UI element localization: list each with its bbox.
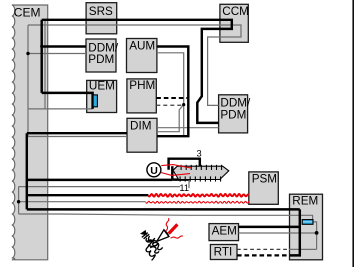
svg-text:DIM: DIM (130, 120, 151, 133)
svg-text:CCM: CCM (222, 5, 249, 18)
svg-text:PHM: PHM (129, 79, 155, 92)
svg-text:PSM: PSM (252, 172, 277, 185)
svg-text:U: U (150, 165, 158, 177)
svg-text:AUM: AUM (129, 40, 155, 53)
svg-text:UEM: UEM (89, 80, 115, 93)
svg-text:PDM: PDM (88, 53, 114, 66)
svg-text:11: 11 (179, 183, 189, 193)
svg-text:PDM: PDM (220, 108, 246, 121)
svg-text:REM: REM (292, 194, 318, 207)
svg-text:AEM: AEM (212, 225, 237, 238)
svg-text:RTI: RTI (214, 245, 233, 258)
svg-text:3: 3 (197, 149, 202, 159)
svg-text:SRS: SRS (89, 5, 113, 18)
svg-text:CEM: CEM (14, 5, 41, 19)
